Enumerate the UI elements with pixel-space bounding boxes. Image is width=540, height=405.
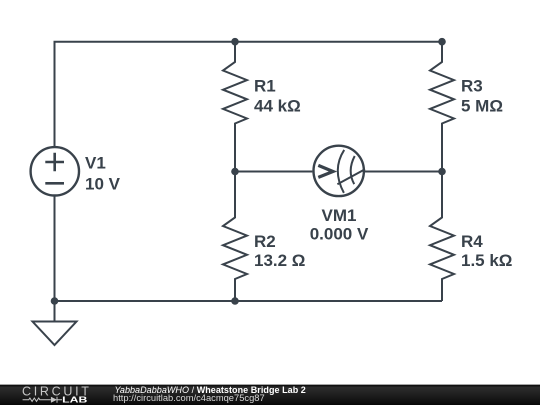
svg-text:44 kΩ: 44 kΩ bbox=[254, 96, 301, 115]
svg-text:R4: R4 bbox=[461, 232, 483, 251]
svg-text:R1: R1 bbox=[254, 77, 276, 96]
svg-text:5 MΩ: 5 MΩ bbox=[461, 96, 503, 115]
svg-text:LAB: LAB bbox=[62, 395, 88, 404]
svg-text:0.000 V: 0.000 V bbox=[310, 225, 369, 244]
svg-text:13.2 Ω: 13.2 Ω bbox=[254, 251, 305, 270]
svg-text:R2: R2 bbox=[254, 232, 276, 251]
svg-text:R3: R3 bbox=[461, 77, 483, 96]
svg-text:10 V: 10 V bbox=[85, 174, 121, 193]
svg-text:1.5 kΩ: 1.5 kΩ bbox=[461, 251, 512, 270]
svg-text:VM1: VM1 bbox=[322, 206, 357, 225]
svg-text:V1: V1 bbox=[85, 154, 106, 173]
